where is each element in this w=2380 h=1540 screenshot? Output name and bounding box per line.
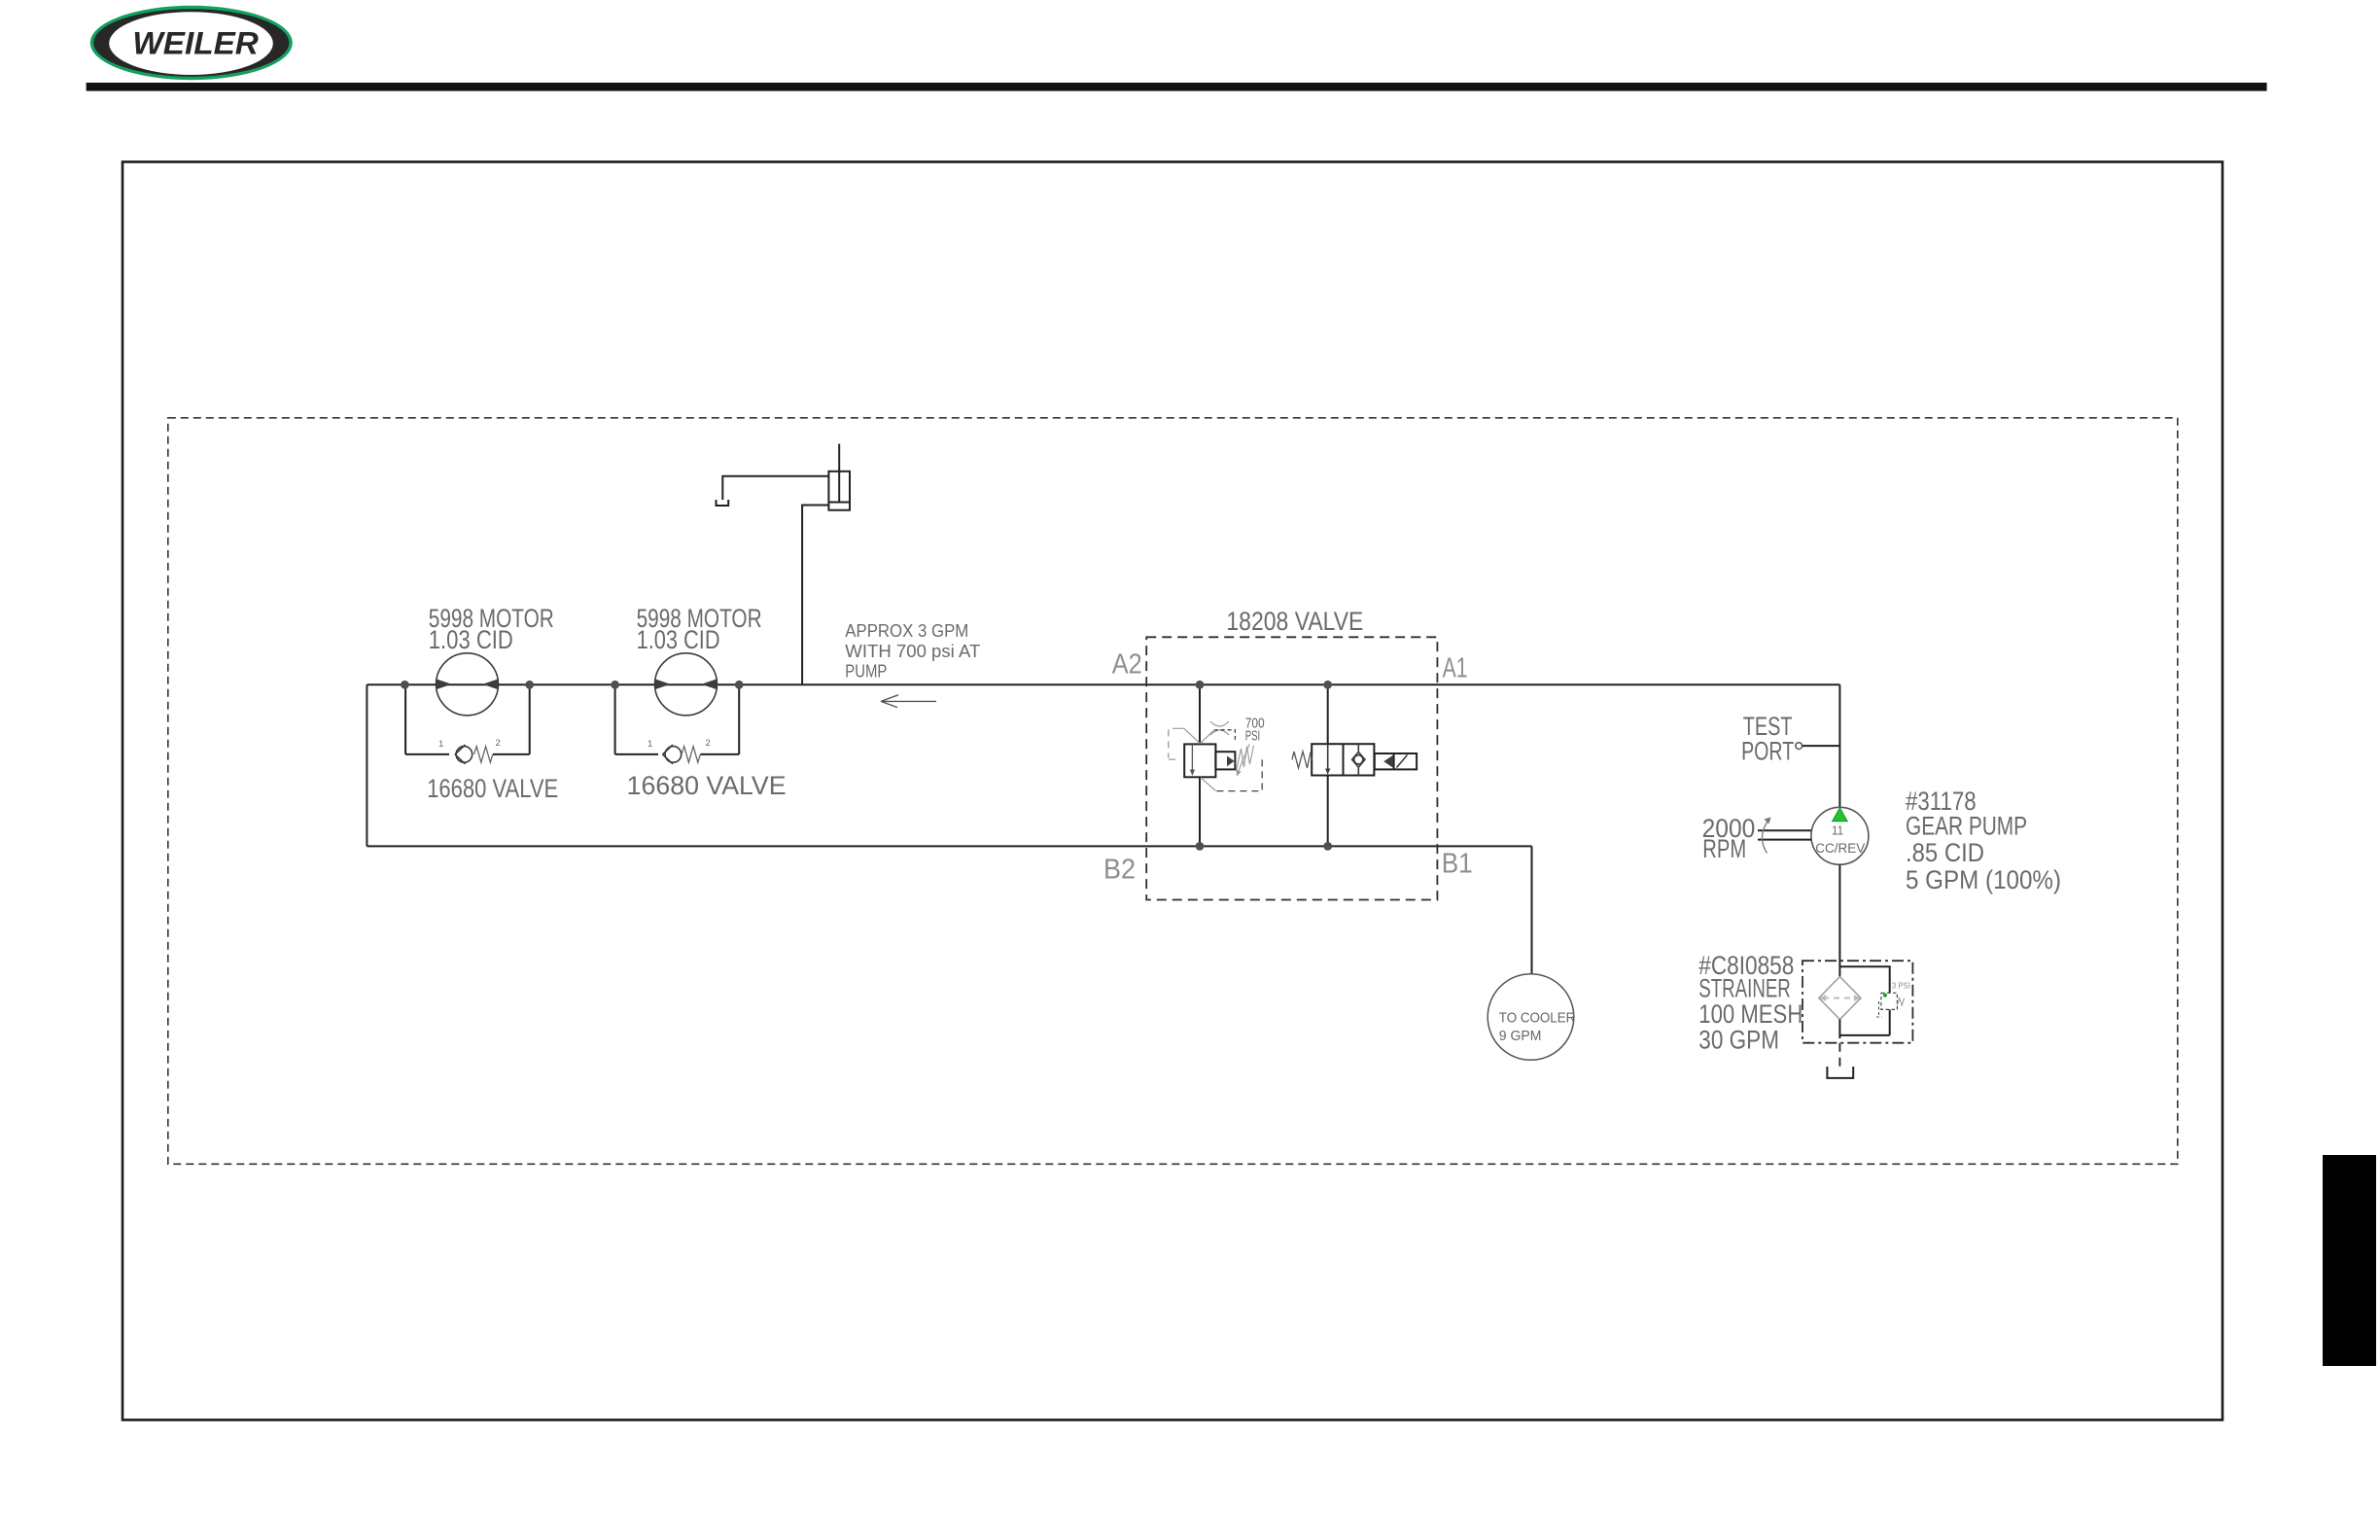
- wire: B1 to cooler: [1531, 846, 1533, 974]
- svg-text:16680 VALVE: 16680 VALVE: [427, 774, 558, 803]
- svg-text:16680 VALVE: 16680 VALVE: [627, 771, 787, 800]
- svg-text:3 PSI: 3 PSI: [1892, 981, 1910, 991]
- wire: test port line: [1802, 745, 1840, 747]
- bypass check valve (3 PSI): [1876, 981, 1910, 1018]
- svg-text:5 GPM (100%): 5 GPM (100%): [1906, 865, 2061, 894]
- node: valve port junctions: [1196, 681, 1333, 851]
- wire: supply drop to pump: [1838, 684, 1840, 807]
- svg-text:30 GPM: 30 GPM: [1698, 1026, 1779, 1055]
- tank (drain): [717, 500, 729, 506]
- wire: strainer suction (dashed): [1838, 1043, 1840, 1070]
- wire: return line B2-B1: [367, 845, 1531, 847]
- page tab (black index marker): [2323, 1155, 2376, 1366]
- relief valve RV1 (700 PSI): [1169, 716, 1265, 791]
- svg-text:PORT: PORT: [1741, 736, 1794, 765]
- wire: solenoid valve branch: [1327, 684, 1329, 846]
- svg-text:18208 VALVE: 18208 VALVE: [1226, 607, 1363, 636]
- Weiler logo: [90, 6, 293, 80]
- svg-text:CC/REV: CC/REV: [1815, 841, 1865, 856]
- svg-text:1: 1: [647, 739, 652, 750]
- svg-text:B2: B2: [1103, 855, 1136, 886]
- svg-text:2: 2: [706, 738, 711, 749]
- svg-text:A1: A1: [1443, 653, 1468, 684]
- wire: motor M1 bypass loop: [405, 684, 530, 754]
- enclosure boundary (hydraulic power unit, dashed): [168, 418, 2178, 1165]
- strainer F1 (#C8I0858, dash-dot box): [1802, 961, 1912, 1042]
- svg-text:WEILER: WEILER: [132, 26, 258, 61]
- wire: supply line from motors to pump (A2-A1): [367, 683, 1839, 685]
- svg-text:STRAINER: STRAINER: [1698, 974, 1791, 1003]
- wire: cylinder feed from supply line: [802, 506, 828, 685]
- wire: cylinder drain to tank: [722, 476, 828, 500]
- wire: relief valve branch: [1199, 684, 1201, 846]
- check valve CV2 (16680 VALVE): [627, 738, 787, 800]
- svg-text:RPM: RPM: [1702, 834, 1746, 863]
- svg-text:.85 CID: .85 CID: [1906, 838, 1984, 867]
- wire: strainer bypass loop: [1839, 966, 1889, 1038]
- test port: [1741, 712, 1802, 765]
- tank (reservoir): [1827, 1067, 1853, 1078]
- svg-text:9 GPM: 9 GPM: [1499, 1029, 1542, 1044]
- svg-text:PSI: PSI: [1245, 727, 1261, 744]
- svg-text:1: 1: [438, 739, 443, 750]
- svg-text:1.03 CID: 1.03 CID: [429, 625, 513, 654]
- check valve CV1 (16680 VALVE): [427, 738, 558, 803]
- cylinder (broom lift): [828, 444, 850, 510]
- header rule: [87, 83, 2267, 91]
- gear pump P1 (#31178): [1811, 807, 1869, 864]
- svg-text:11: 11: [1832, 824, 1843, 838]
- svg-text:TO COOLER: TO COOLER: [1499, 1011, 1576, 1027]
- svg-text:WITH 700 psi AT: WITH 700 psi AT: [845, 642, 980, 661]
- wire: left return drop: [366, 684, 367, 846]
- label: APPROX 3 GPM WITH 700 psi AT PUMP: [845, 621, 980, 682]
- label: #31178 GEAR PUMP .85 CID 5 GPM (100%): [1906, 787, 2061, 894]
- motor M2 (5998 MOTOR 1.03 CID): [637, 604, 762, 716]
- svg-text:PUMP: PUMP: [845, 662, 887, 682]
- solenoid valve SV1 (2-way): [1292, 744, 1417, 775]
- wire: pump suction to strainer: [1838, 864, 1840, 976]
- svg-text:1.03 CID: 1.03 CID: [637, 625, 720, 654]
- valve block 18208 (dashed outline): [1146, 637, 1437, 899]
- pump shaft (2000 RPM): [1702, 814, 1811, 863]
- svg-text:100 MESH: 100 MESH: [1698, 999, 1802, 1029]
- svg-text:2: 2: [496, 738, 501, 749]
- svg-text:A2: A2: [1112, 648, 1142, 680]
- cooler outlet (TO COOLER 9 GPM): [1487, 974, 1575, 1061]
- svg-text:B1: B1: [1442, 848, 1473, 879]
- label: #C8I0858 STRAINER 100 MESH 30 GPM: [1698, 951, 1802, 1055]
- motor M1 (5998 MOTOR 1.03 CID): [429, 604, 554, 716]
- flow arrow (leftward): [881, 695, 936, 708]
- svg-text:APPROX 3 GPM: APPROX 3 GPM: [845, 621, 968, 641]
- wire: motor M2 bypass loop: [615, 684, 740, 754]
- node: supply junctions at motors: [401, 681, 744, 689]
- svg-text:GEAR PUMP: GEAR PUMP: [1906, 811, 2027, 840]
